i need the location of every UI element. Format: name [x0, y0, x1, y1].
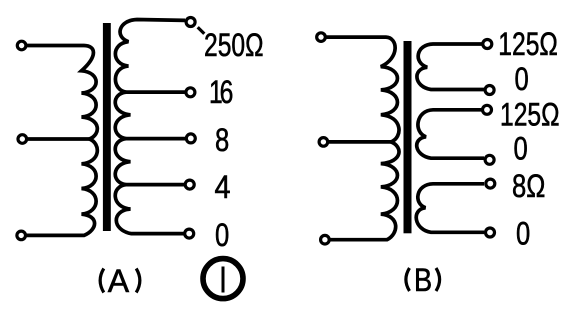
- svg-text:0: 0: [215, 218, 229, 253]
- svg-text:16: 16: [209, 75, 233, 111]
- svg-text:B: B: [414, 263, 432, 299]
- svg-text:8Ω: 8Ω: [512, 169, 545, 204]
- svg-text:0: 0: [516, 217, 530, 252]
- svg-text:250Ω: 250Ω: [204, 28, 264, 64]
- svg-text:0: 0: [515, 62, 529, 97]
- svg-text:4: 4: [215, 170, 231, 206]
- svg-text:8: 8: [215, 123, 229, 158]
- svg-text:A: A: [108, 263, 130, 299]
- svg-text:125Ω: 125Ω: [500, 97, 560, 133]
- svg-text:0: 0: [514, 132, 528, 167]
- svg-text:125Ω: 125Ω: [498, 27, 558, 63]
